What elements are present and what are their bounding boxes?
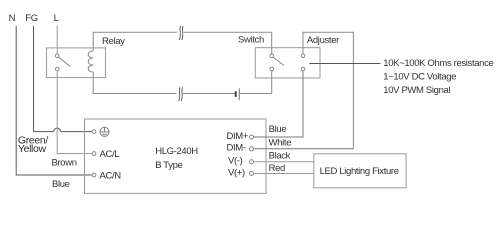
switch stub top-left (271, 48, 273, 54)
power supply U1 box (85, 119, 267, 193)
svg-text:V(-): V(-) (228, 156, 243, 167)
wire V+ red (254, 173, 314, 175)
svg-text:Black: Black (269, 151, 291, 162)
svg-text:FG: FG (25, 13, 38, 24)
DIM- terminal (250, 147, 254, 151)
svg-text:Yellow: Yellow (18, 143, 47, 155)
battery BT1 long plate (238, 88, 240, 100)
svg-text:Switch: Switch (238, 35, 264, 46)
wire L vertical upper (56, 26, 58, 54)
wire battery right lead to switch (240, 78, 272, 94)
svg-text:Blue: Blue (269, 124, 287, 135)
V(-) terminal (250, 160, 254, 164)
svg-text:Relay: Relay (102, 36, 125, 47)
switch blade (273, 57, 284, 65)
svg-text:AC/L: AC/L (100, 149, 120, 160)
wire top to switch (184, 32, 272, 47)
battery BT1 short plate (235, 91, 237, 97)
wire FG to ground terminal (61, 131, 92, 133)
V(+) terminal (250, 172, 254, 176)
wire DIM+ blue (254, 71, 303, 137)
relay contact bottom circle (55, 67, 59, 71)
svg-text:HLG-240H: HLG-240H (155, 146, 198, 157)
svg-text:L: L (54, 13, 59, 24)
wire battery left lead (183, 93, 235, 95)
ground terminal circle (92, 130, 96, 134)
wire V- black (254, 161, 314, 163)
pointer line to resistance note (309, 63, 380, 65)
svg-text:DIM-: DIM- (227, 142, 246, 153)
svg-text:B Type: B Type (155, 160, 182, 171)
wire adjuster frame top (303, 32, 353, 149)
AC/L terminal circle (92, 152, 96, 156)
potentiometer box (255, 48, 320, 78)
relay contact blade (59, 57, 71, 66)
wire break symbol bottom (179, 87, 180, 101)
svg-text:DIM+: DIM+ (227, 131, 249, 142)
switch terminal top-left (270, 54, 274, 58)
svg-text:LED Lighting Fixture: LED Lighting Fixture (320, 166, 399, 177)
svg-text:Blue: Blue (52, 179, 70, 190)
adjuster terminal bottom-right (301, 67, 305, 71)
relay coil (88, 51, 93, 72)
switch terminal bottom-left (270, 67, 274, 71)
LED lighting fixture box (314, 154, 406, 188)
wire FG vertical (34, 26, 54, 132)
protective earth symbol (100, 127, 109, 136)
wire coil bottom lead (93, 72, 176, 94)
svg-text:Brown: Brown (52, 158, 77, 169)
svg-text:10K~100K Ohms resistance: 10K~100K Ohms resistance (383, 58, 493, 69)
wire DIM- white (254, 148, 354, 150)
wire coil top lead (93, 32, 177, 51)
relay K1 box (47, 48, 106, 78)
svg-text:Adjuster: Adjuster (307, 35, 339, 46)
wire L vertical lower to AC/L (57, 71, 92, 153)
svg-text:V(+): V(+) (228, 168, 245, 179)
adjuster terminal top-right (301, 54, 305, 58)
relay contact top circle (55, 54, 59, 58)
switch stub bottom-left (271, 71, 273, 78)
wire FG hop over L (54, 128, 61, 131)
AC/N terminal circle (92, 173, 96, 177)
svg-text:White: White (269, 138, 292, 149)
svg-text:N: N (9, 13, 16, 24)
svg-text:1~10V DC Voltage: 1~10V DC Voltage (383, 71, 456, 82)
wire break symbol top (179, 26, 180, 40)
svg-text:10V PWM Signal: 10V PWM Signal (383, 85, 450, 96)
svg-text:Red: Red (269, 163, 285, 174)
DIM+ terminal (250, 135, 254, 139)
adjuster stub top-right (302, 48, 304, 54)
wire N vertical (16, 26, 92, 175)
svg-text:AC/N: AC/N (100, 171, 122, 182)
